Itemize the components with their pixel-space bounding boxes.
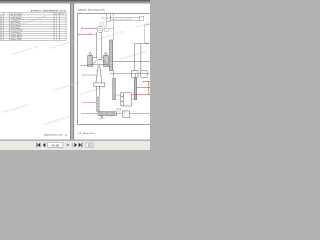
svg-text:09: 09 <box>0 34 2 36</box>
svg-text:APPENDIX - WIRE HARNESS LIST (: APPENDIX - WIRE HARNESS LIST (4) <box>31 9 66 12</box>
svg-text:02: 02 <box>0 18 2 20</box>
svg-text:4W210E - Wiring Diagram (4): 4W210E - Wiring Diagram (4) <box>78 9 105 11</box>
svg-text:04: 04 <box>0 23 2 25</box>
svg-text:05: 05 <box>0 25 2 27</box>
svg-text:06: 06 <box>0 27 2 29</box>
svg-text:2: 2 <box>56 39 57 41</box>
svg-text:Page: Page <box>60 13 64 15</box>
svg-text:10: 10 <box>0 37 2 39</box>
svg-text:03: 03 <box>0 20 2 22</box>
svg-text:07: 07 <box>0 30 2 32</box>
svg-text:11: 11 <box>0 39 2 41</box>
svg-text:4/196: 4/196 <box>52 143 60 147</box>
svg-text:08: 08 <box>0 32 2 34</box>
svg-text:Battery Cable: Battery Cable <box>11 38 22 41</box>
svg-text:Wiring Circuit: Wiring Circuit <box>83 132 95 135</box>
svg-text:4-6: 4-6 <box>78 133 81 135</box>
svg-text:01: 01 <box>0 16 2 18</box>
svg-text:Appendix A (Cont'd): Appendix A (Cont'd) <box>44 133 62 136</box>
